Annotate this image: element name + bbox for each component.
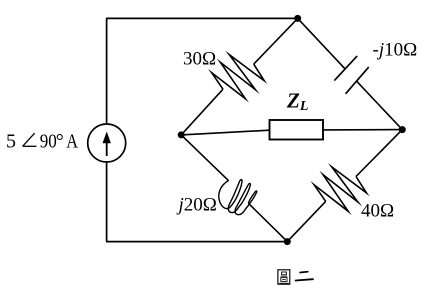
wire 30ohm resistor to node T <box>254 18 298 64</box>
svg-text:40Ω: 40Ω <box>361 201 394 222</box>
svg-text:5: 5 <box>6 131 16 153</box>
svg-text:30Ω: 30Ω <box>183 49 216 70</box>
node L (left) <box>178 131 185 138</box>
caption figure-two glyph tu <box>278 270 290 284</box>
wire node B to 40ohm resistor <box>287 201 325 241</box>
impedance box ZL <box>270 120 324 140</box>
wire bottom horizontal <box>106 241 287 243</box>
wire L to ZL box <box>181 130 269 135</box>
resistor 30ohm zigzag <box>212 55 265 99</box>
svg-text:A: A <box>66 131 78 153</box>
wire inductor to node B <box>248 203 287 241</box>
current source arrow <box>103 132 111 157</box>
wire left vertical upper <box>106 18 108 124</box>
wire top horizontal <box>106 17 298 19</box>
wire left vertical lower <box>106 162 108 242</box>
wire 40ohm resistor to node R <box>356 130 402 177</box>
svg-text:j20Ω: j20Ω <box>176 195 217 216</box>
label source 5 angle 90 A <box>6 131 78 153</box>
node B (bottom) <box>284 238 291 245</box>
svg-text:90: 90 <box>40 131 57 153</box>
inductor j20ohm coil <box>219 180 257 215</box>
caption figure-two glyph er <box>296 272 313 281</box>
node R (right) <box>399 126 406 133</box>
wire ZL box to node R <box>323 129 402 131</box>
wire node T to capacitor <box>298 18 345 68</box>
current source I1 circle <box>88 124 126 162</box>
node T (top) <box>294 15 301 22</box>
wire arm L to 30ohm resistor <box>181 89 223 135</box>
capacitor C1 -j10ohm plates <box>334 56 368 94</box>
svg-text:°: ° <box>56 131 64 153</box>
svg-text:-j10Ω: -j10Ω <box>373 40 418 61</box>
wire capacitor to node R <box>357 81 403 130</box>
wire arm L to inductor <box>181 135 228 181</box>
resistor 40ohm zigzag <box>314 167 366 211</box>
